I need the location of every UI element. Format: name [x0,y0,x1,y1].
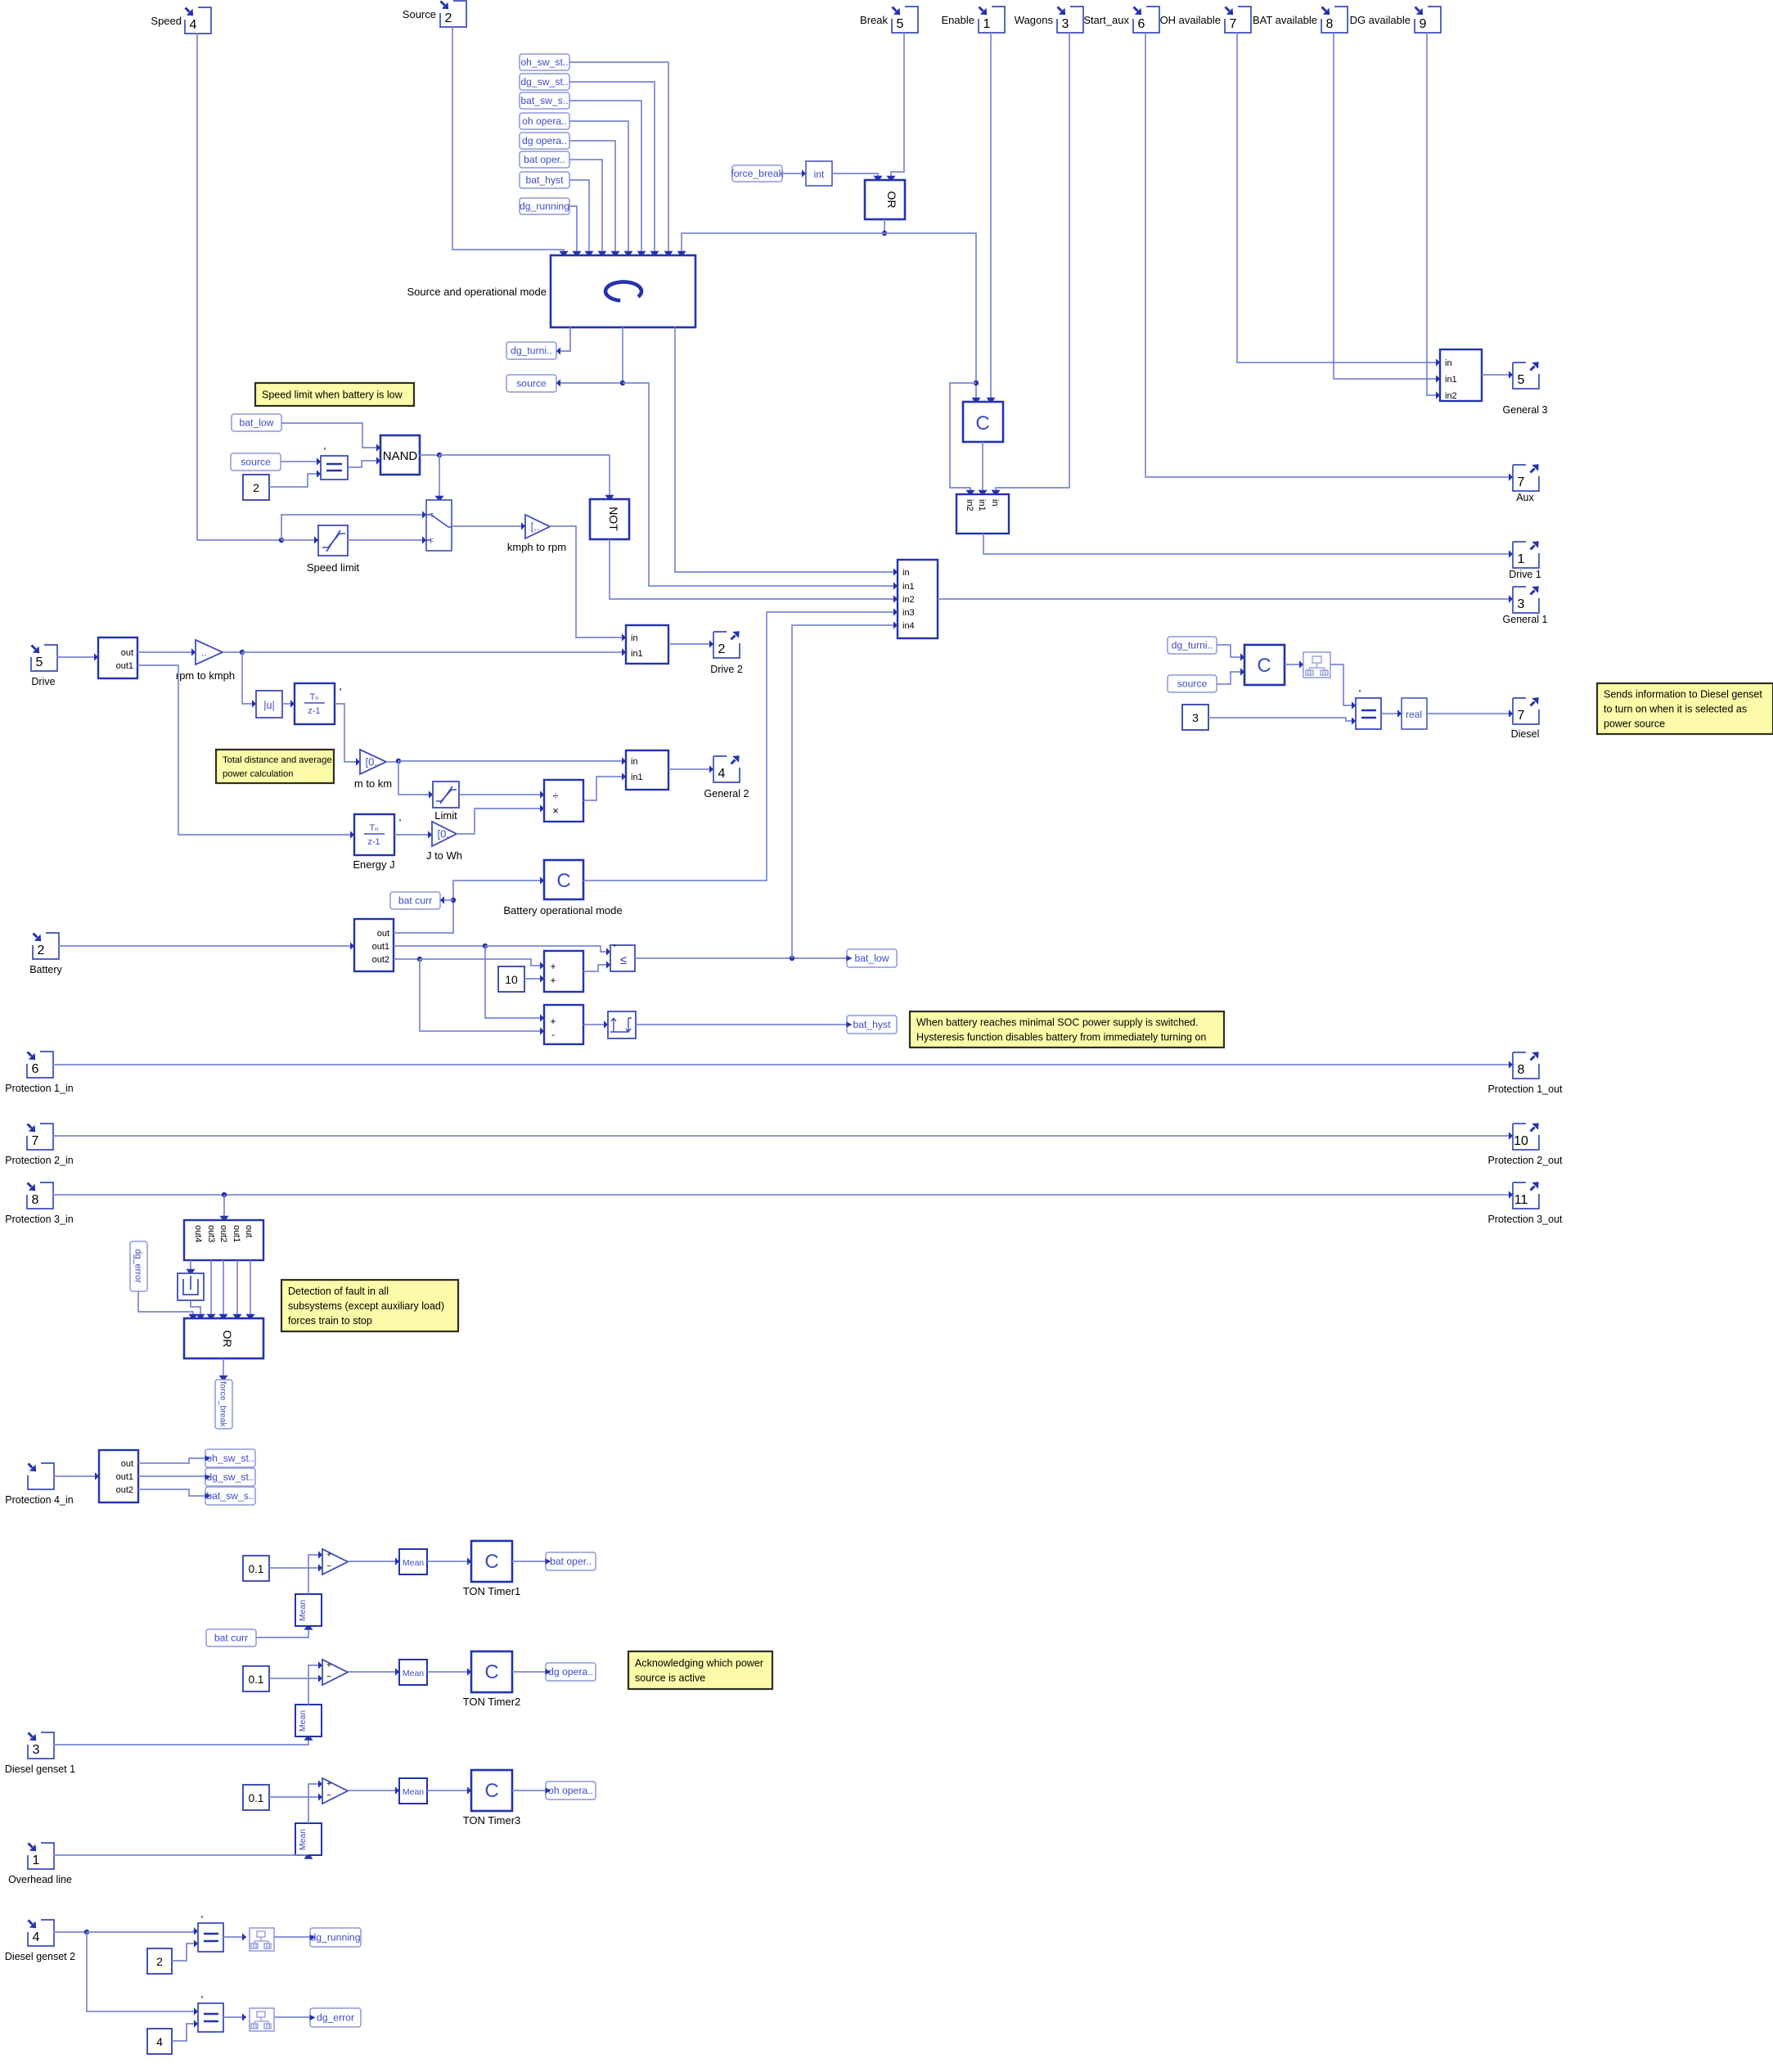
svg-text:1: 1 [983,17,991,31]
svg-text:C: C [484,1551,498,1573]
svg-text:8: 8 [1518,1063,1525,1077]
svg-text:Sends information to Diesel ge: Sends information to Diesel genset [1604,688,1762,700]
tag source 2 [231,453,281,471]
wire Mean to chart TON1 [427,1557,471,1565]
svg-text:J to Wh: J to Wh [426,849,462,862]
svg-text:out3: out3 [206,1225,216,1242]
inport Protection 1_in (6) [5,1052,73,1094]
svg-text:dg_turni..: dg_turni.. [511,345,552,357]
gain m to km [354,750,392,790]
from tag bat_hyst [520,172,569,188]
block real [1402,698,1427,729]
wire D1 out to gain [137,648,196,655]
svg-text:Energy J: Energy J [353,858,394,871]
svg-text:dg opera..: dg opera.. [548,1666,593,1678]
svg-text:real: real [1406,709,1422,720]
logic NOT [590,499,629,539]
svg-text:out2: out2 [116,1485,133,1495]
note speed limit [255,383,414,406]
svg-text:5: 5 [36,655,43,669]
wire out2 to sum2 minus [420,959,544,1035]
svg-text:rpm to kmph: rpm to kmph [176,669,235,682]
tag oh_sw_st write [205,1449,256,1467]
svg-text:out2: out2 [372,955,389,965]
wire BAT available to G3 [1334,33,1440,383]
svg-text:': ' [201,1993,203,2006]
svg-text:NAND: NAND [383,449,418,463]
svg-text:Source: Source [403,8,436,20]
wire backlash to bat_hyst [636,1024,847,1025]
chart C4 Diesel [1244,645,1285,685]
switch SW1 [426,500,452,551]
wire subsystem to source tag [556,327,625,387]
gain rpm to kmph [176,640,235,682]
svg-text:in: in [902,568,910,578]
wire out2 to sum1 [420,959,544,970]
outport Drive 2 (2) [710,631,743,675]
tag bat curr (write) [390,892,440,909]
wire Protection 1 [52,1061,1513,1068]
svg-text:C: C [975,412,989,435]
wire delay to OR2 [191,1300,205,1318]
svg-text:Enable: Enable [942,14,974,26]
svg-text:..: .. [201,646,207,659]
svg-text:source: source [241,457,271,468]
svg-text:|u|: |u| [263,700,274,711]
svg-text:in2: in2 [902,595,915,605]
svg-text:Diesel: Diesel [1511,728,1540,740]
const 4b [147,2029,172,2054]
chart C3 Battery operational mode [503,860,622,917]
conv block icon1 [1303,652,1330,678]
svg-text:0.1: 0.1 [249,1792,264,1804]
wire overhead to Meanv3 [53,1855,313,1859]
wire genset2 junction [53,1930,89,1935]
svg-text:Mean: Mean [298,1710,308,1732]
svg-text:bat_sw_s..: bat_sw_s.. [520,95,568,106]
const 3 [1182,705,1208,730]
svg-text:Protection 1_in: Protection 1_in [5,1083,73,1094]
inport Diesel genset 2 (4) [5,1920,75,1962]
demux M4 (out4..out) [184,1220,263,1260]
wire NAND to NOT [439,455,614,499]
svg-text:When battery reaches minimal S: When battery reaches minimal SOC power s… [916,1016,1199,1028]
from tag bat oper.. [520,151,569,168]
wire 2b to EQ3 [172,1939,198,1961]
svg-text:Battery: Battery [29,964,62,975]
svg-text:C: C [556,870,570,892]
wire out to OR2 [246,1260,255,1318]
svg-text:Start_aux: Start_aux [1083,14,1129,26]
svg-text:Mean: Mean [298,1829,308,1850]
svg-text:dg_sw_st..: dg_sw_st.. [520,76,568,88]
svg-text:': ' [399,817,401,829]
note total distance [216,750,334,783]
wire DG available to G3 [1427,33,1440,399]
abs block |u| [256,691,282,718]
wire junction to saturation [281,536,318,543]
wire P4 to demux [53,1472,99,1480]
wire junction to bat curr [440,896,453,903]
relational EQ3 (==) [198,1913,223,1952]
from tag bat_sw_s.. [520,92,569,109]
wire C4 to conv1 [1285,660,1303,668]
svg-text:': ' [340,686,341,698]
svg-text:': ' [614,942,615,954]
svg-text:z-1: z-1 [308,706,320,716]
note acknowledging [628,1651,772,1689]
from tag dg_running [520,198,569,214]
svg-text:Break: Break [860,14,888,26]
wire EQ1 to NAND [348,457,380,467]
wire junction to abs [242,652,256,708]
svg-text:[0..: [0.. [366,756,380,768]
wire bat curr to Meanv1 [256,1626,313,1637]
const 0.1 TON2 [243,1666,269,1691]
block int [806,161,832,186]
tag dg opera.. write [546,1663,596,1681]
svg-text:oh_sw_st..: oh_sw_st.. [520,56,568,68]
const 2b [147,1948,172,1974]
inport OH available (7) [1160,7,1251,33]
wire Meanv to sum TON1 [308,1551,322,1594]
wire junction to merge in2 [950,383,976,494]
tag bat_low write [847,949,898,967]
svg-text:to turn on when it is selected: to turn on when it is selected as [1604,703,1747,714]
svg-text:Drive 1: Drive 1 [1509,569,1541,580]
wire out1 to OR2 [233,1260,242,1318]
svg-text:Mean: Mean [403,1558,424,1568]
wire JWh to divmul [457,804,544,834]
block Mean vertical TON3 [295,1823,322,1855]
wire dg opera.. to subsystem [569,141,620,255]
svg-text:Tₙ: Tₙ [309,692,318,702]
svg-text:bat curr: bat curr [214,1633,248,1644]
svg-text:8: 8 [32,1193,39,1207]
svg-text:Hysteresis function disables b: Hysteresis function disables battery fro… [916,1031,1206,1043]
svg-text:[..: [.. [531,520,540,533]
wire source to C4 [1217,668,1244,684]
svg-text:5: 5 [897,17,904,31]
svg-text:[0..: [0.. [438,828,452,840]
const 0.1 TON3 [243,1785,269,1810]
wire divmul to General2 in1 [583,772,626,800]
svg-text:in1: in1 [902,582,915,592]
wire Start_aux to Aux [1145,33,1513,481]
wire M3 to General 1 [938,595,1513,602]
svg-text:out: out [377,929,389,939]
svg-text:out: out [244,1225,254,1237]
demux D1 (out out1) [98,637,137,678]
svg-text:10: 10 [505,973,518,986]
wire bat_low to NAND [281,423,380,452]
svg-text:Battery operational mode: Battery operational mode [503,904,622,917]
wire conv3 to dg_error [274,2016,310,2018]
svg-text:Protection 1_out: Protection 1_out [1487,1083,1563,1095]
saturation Speed limit [307,525,360,574]
svg-text:in1: in1 [631,772,643,782]
svg-text:Total distance and average: Total distance and average [223,755,332,765]
wire switch to kmph gain [452,522,525,529]
wire M2 to General 3 [1482,371,1513,378]
wire dg_running to subsystem [569,206,582,255]
svg-text:Detection of fault in all: Detection of fault in all [288,1286,389,1297]
svg-text:7: 7 [1518,475,1525,489]
wire out4 to delay [187,1260,196,1273]
wire 0.1 to sum TON1 [269,1564,322,1571]
wire 4b to EQ4 [172,2020,198,2041]
wire EQ2 to real [1381,709,1402,717]
svg-text:Speed limit when battery is lo: Speed limit when battery is low [262,389,403,400]
sum TON2 [322,1660,348,1685]
wire oh opera.. to subsystem [569,121,633,255]
inport DG available (9) [1350,7,1441,33]
svg-text:z-1: z-1 [367,837,380,847]
const 10 [498,966,524,992]
wire Source to subsystem [452,26,569,255]
wire NAND junction [420,453,442,457]
wire chart to tag TON3 [512,1790,546,1791]
const 0.1 TON1 [243,1556,269,1581]
block Mean TON1 [399,1549,427,1574]
svg-text:out4: out4 [193,1225,203,1242]
wire OR1 out junction [882,219,887,236]
wire Enable to C2 [987,33,996,402]
wire EQ3 to conv2 [223,1933,246,1940]
wire S2 to backlash [583,1020,608,1028]
svg-text:−: − [326,1562,331,1571]
chart C2 (Wagons) [963,402,1003,442]
svg-text:in2: in2 [965,499,974,511]
from tag oh_sw_st.. [520,54,569,70]
outport General 3 (5) [1503,362,1548,416]
conv block icon2 [250,1928,274,1951]
svg-text:BAT available: BAT available [1253,14,1317,26]
tag source (from subsystem) [506,375,556,392]
merge block M2 General3 (in in1 in2) [1440,349,1482,401]
wire EnergyJ to JWh gain [394,831,432,838]
svg-text:': ' [324,445,326,457]
chart TON Timer3 [463,1770,521,1827]
wire integ1 to mkm gain [335,704,360,766]
wire junction to Limit [398,761,433,799]
relational EQ1 (==) [321,445,348,480]
svg-text:TON Timer1: TON Timer1 [463,1585,521,1597]
wire D1 out1 to Energy J [137,665,354,839]
inport Wagons (3) [1015,7,1083,33]
wire C3 to mux in3 [583,608,898,881]
svg-text:≤: ≤ [620,953,627,967]
from tag oh opera.. [520,113,569,129]
inport Protection 4_in [5,1463,73,1506]
wire 0.1 to sum TON3 [269,1793,322,1800]
sum block S1 (+ +) [544,951,583,992]
wire source junction to in1 [623,383,898,590]
svg-text:dg_running: dg_running [520,200,569,212]
wire LE to bat_low [635,956,847,961]
svg-text:bat_low: bat_low [854,953,889,964]
inport Break (5) [860,7,918,33]
wire S1 to LE [583,961,610,971]
svg-text:C: C [484,1780,498,1802]
wire oh_sw_st.. to subsystem [569,62,673,255]
wire chart to tag TON2 [512,1671,546,1673]
svg-text:oh_sw_st..: oh_sw_st.. [206,1453,254,1464]
svg-text:Mean: Mean [298,1600,308,1621]
wire out2 to bat_sw tag [138,1489,205,1496]
conv block icon3 [250,2008,274,2031]
outport Aux (7) [1513,464,1539,503]
svg-text:4: 4 [718,767,726,781]
wire Protection 3 [52,1191,1513,1198]
svg-text:3: 3 [1518,597,1525,611]
block Mean TON3 [399,1778,427,1804]
wire D2 to Drive 2 [668,640,713,647]
inport Protection 2_in (7) [5,1124,73,1166]
svg-text:−: − [326,1673,331,1682]
svg-text:force_break: force_break [218,1381,228,1427]
wire int to OR [832,173,883,180]
integrator Energy J [353,814,401,871]
svg-text:2: 2 [38,944,45,957]
svg-text:': ' [1359,687,1361,700]
svg-text:out1: out1 [372,942,389,952]
wire Speed down [197,33,284,543]
tag source 3 [1168,675,1217,692]
svg-text:2: 2 [156,1955,163,1968]
wire Drive to demux [56,653,98,660]
svg-text:−: − [326,1791,331,1800]
wire NOT to mux in2 [610,539,898,603]
tag force_break write [215,1380,232,1429]
svg-text:bat_hyst: bat_hyst [525,174,564,186]
svg-text:out: out [121,1459,133,1469]
block Mean vertical TON1 [295,1594,322,1626]
wire Battery to demux [58,942,354,949]
svg-text:bat_low: bat_low [239,417,273,429]
tag dg_turni 2 [1168,637,1217,654]
svg-text:source is active: source is active [635,1672,705,1683]
wire abs to integ1 [282,700,295,707]
wire NAND to switch [435,455,444,500]
svg-text:9: 9 [1420,17,1427,31]
svg-text:m to km: m to km [354,777,392,790]
wire sum to Mean TON3 [348,1786,399,1794]
svg-text:power calculation: power calculation [223,769,293,779]
tag oh opera.. write [546,1781,596,1799]
wire gain junction [223,650,245,655]
wire out1 to dg_sw tag [138,1475,205,1477]
tag bat_low [232,414,281,431]
svg-text:4: 4 [190,18,197,32]
svg-text:÷: ÷ [552,790,558,802]
wire out1 to sum2 [485,946,544,1022]
wire bat oper.. to subsystem [569,160,607,255]
wire conv2 to dg_running [274,1936,310,1938]
wire D3 out2 junction [394,957,422,962]
svg-text:3: 3 [1062,17,1069,31]
merge G2 (in in1) [626,750,668,790]
svg-text:Overhead line: Overhead line [8,1874,72,1885]
wire OR1 to C2 junction [884,233,981,402]
wire dg_turni to C4 [1217,645,1244,661]
svg-text:OH available: OH available [1160,14,1221,26]
wire dg_sw_st.. to subsystem [569,82,659,255]
relational EQ2 (==) [1356,687,1381,729]
sum TON1 [322,1549,348,1574]
outport Drive 1 (1) [1509,541,1541,580]
svg-text:2: 2 [718,642,726,656]
wire chart to tag TON1 [512,1561,546,1562]
wire OH available to G3 [1237,33,1440,367]
wire out2 to OR2 [219,1260,228,1318]
svg-text:10: 10 [1514,1134,1528,1148]
wire sum to Mean TON1 [348,1557,399,1565]
inport Enable (1) [942,7,1005,33]
logic OR1 [865,180,905,219]
wire D3 out to chart C3 [394,876,544,933]
tag bat oper.. write [546,1552,596,1570]
svg-text:bat curr: bat curr [398,895,432,907]
svg-text:in4: in4 [902,621,915,631]
svg-text:C: C [484,1661,498,1683]
wire genset2 to EQ3 [87,1927,198,1935]
svg-text:DG available: DG available [1350,14,1411,26]
svg-text:7: 7 [1230,17,1237,31]
svg-text:1: 1 [33,1854,40,1867]
svg-text:Speed: Speed [151,15,182,27]
svg-text:in2: in2 [1445,391,1457,401]
wire OR2 to force_break [219,1358,228,1380]
wire genset2 to EQ4 [87,1932,198,2016]
outport Protection 3_out (11) [1487,1182,1563,1225]
wire saturation to switch F [348,536,426,543]
wire 10 to sum1 [524,975,544,982]
svg-text:Speed limit: Speed limit [307,561,360,574]
svg-text:Mean: Mean [403,1669,424,1678]
svg-text:General 3: General 3 [1503,404,1548,416]
svg-text:in: in [631,633,638,643]
svg-text:kmph to rpm: kmph to rpm [507,541,566,553]
svg-text:Protection 3_in: Protection 3_in [5,1214,73,1225]
outport General 1 (3) [1503,586,1548,625]
wire source to EQ1 [281,457,321,465]
svg-text:out: out [121,648,133,658]
svg-text:in1: in1 [977,499,987,511]
tag force_break [731,165,784,182]
svg-text:×: × [552,804,559,817]
svg-text:forces train to stop: forces train to stop [288,1315,372,1327]
svg-text:dg opera..: dg opera.. [522,135,567,146]
svg-text:C: C [1257,655,1271,677]
svg-text:power source: power source [1604,718,1665,729]
saturation Limit [433,782,459,822]
svg-text:bat oper..: bat oper.. [524,154,565,165]
merge block M1 (in2 in1 in) [956,494,1009,534]
svg-text:+: + [326,1551,331,1560]
tag bat curr read [206,1629,256,1646]
wire Limit to divmul [459,791,544,798]
svg-text:F: F [430,537,434,545]
svg-text:TON Timer2: TON Timer2 [463,1696,521,1708]
svg-text:Source and operational mode: Source and operational mode [407,286,547,298]
unit delay Z1 [178,1273,204,1300]
outport General 2 (4) [704,755,749,800]
svg-text:bat_hyst: bat_hyst [853,1019,891,1030]
inport Drive (5) [31,645,57,687]
svg-text:Protection 4_in: Protection 4_in [5,1494,73,1506]
svg-text:Limit: Limit [434,809,457,822]
